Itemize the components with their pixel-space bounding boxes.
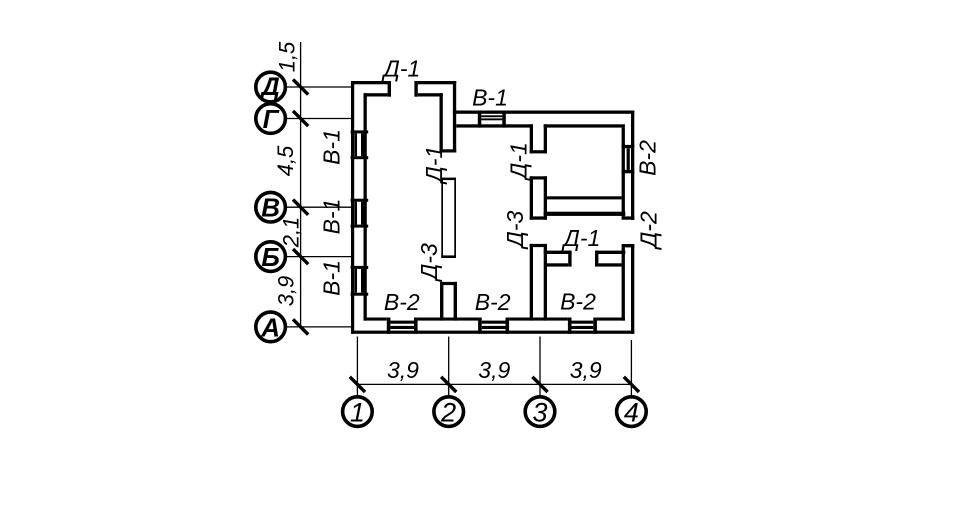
left wall inner line	[364, 93, 367, 320]
svg-text:3: 3	[532, 398, 547, 428]
window В-1 (top wall) panes	[481, 115, 502, 117]
svg-text:Д-3: Д-3	[416, 243, 442, 283]
main top wall outer line	[453, 111, 634, 114]
tick at В	[293, 200, 308, 215]
axis line Г (horizontal extension)	[286, 118, 352, 120]
window В-1 (top wall) caps	[478, 111, 482, 128]
tick at Б	[293, 249, 308, 264]
door Д-1 jamb left (room)	[568, 251, 571, 267]
window В-2 (right wall) pane	[627, 148, 630, 170]
axis extension line 2	[448, 337, 450, 397]
axis extension line 4	[630, 340, 632, 396]
svg-text:3,9: 3,9	[478, 357, 510, 383]
main top wall inner line	[456, 124, 533, 127]
wall W3 inner line	[547, 196, 622, 199]
axis bubble 4	[617, 397, 647, 428]
bottom wall outer line	[351, 331, 634, 334]
axis extension line 3	[539, 337, 541, 397]
porch top wall inner line	[364, 93, 388, 96]
svg-text:В-2: В-2	[475, 289, 511, 315]
room top wall inner line	[547, 263, 568, 266]
svg-text:А: А	[260, 312, 280, 342]
door Д-1 jamb left (porch)	[388, 81, 391, 97]
svg-text:3,9: 3,9	[570, 357, 602, 383]
svg-text:Б: Б	[261, 242, 279, 272]
door Д-1 jamb (W1 upper cap)	[440, 149, 457, 152]
svg-text:Г: Г	[263, 104, 280, 134]
svg-text:В-2: В-2	[560, 288, 596, 314]
door Д-2 jamb top	[622, 216, 635, 219]
svg-text:Д-1: Д-1	[421, 146, 447, 186]
window В-1 middle (left wall)	[351, 199, 369, 202]
door Д-3 jamb (W2, lower)	[530, 244, 547, 247]
axis extension line 1	[356, 337, 358, 397]
tick at А	[293, 319, 308, 334]
right wall inner line	[622, 128, 625, 217]
door Д-1 jamb right (room)	[595, 251, 598, 267]
door Д-1 jamb (W2 mid cap)	[530, 176, 547, 179]
tick at axis 3	[532, 377, 547, 392]
axis line Б (horizontal extension)	[286, 256, 352, 258]
partition top cap (W1)	[441, 178, 456, 181]
axis line А (horizontal extension)	[286, 326, 352, 328]
svg-text:4: 4	[624, 398, 639, 428]
axis bubble 3	[525, 397, 555, 428]
axis bubble 1	[343, 397, 373, 428]
bottom dimension line	[357, 383, 631, 385]
svg-text:В-2: В-2	[384, 289, 420, 315]
wall W1 right line upper	[453, 81, 456, 153]
axis line Д (horizontal extension)	[286, 86, 352, 88]
porch top wall outer line	[351, 81, 388, 84]
wall W2 middle lines	[530, 176, 533, 219]
axis bubble В	[256, 192, 286, 222]
wall W3 outer line	[544, 212, 626, 216]
wall W2 stub lines	[530, 124, 533, 153]
window В-2 middle (bottom wall)	[478, 318, 482, 334]
tick at Г	[293, 111, 308, 126]
door Д-1 jamb (W2 stub cap)	[530, 150, 547, 153]
svg-text:Д-1: Д-1	[561, 225, 601, 251]
door Д-1 jamb right (porch)	[414, 81, 417, 97]
right wall outer line	[631, 111, 634, 221]
svg-text:2,1: 2,1	[279, 217, 304, 249]
svg-text:В: В	[261, 193, 280, 223]
svg-text:Д: Д	[260, 73, 280, 101]
axis line В (horizontal extension)	[286, 206, 352, 208]
svg-text:2: 2	[440, 398, 456, 428]
tick at axis 4	[624, 377, 639, 392]
svg-text:4,5: 4,5	[273, 145, 298, 176]
partition lines (W1)	[441, 178, 443, 258]
svg-text:Д-3: Д-3	[502, 210, 528, 250]
window В-1 upper (left wall)	[351, 130, 369, 133]
room top wall outer line	[544, 251, 572, 254]
window В-1 lower (left wall)	[351, 266, 369, 269]
left wall outer line	[351, 81, 354, 334]
tick at Д	[293, 79, 308, 94]
door Д-2 jamb bottom	[622, 244, 635, 247]
svg-text:1: 1	[350, 398, 365, 428]
wall W2 lower lines	[530, 244, 533, 321]
bottom wall inner line	[364, 318, 387, 321]
window В-2 right (bottom wall)	[568, 318, 572, 334]
svg-text:1,5: 1,5	[275, 41, 300, 72]
svg-text:В-1: В-1	[319, 260, 345, 296]
window В-2 (right wall) caps	[622, 145, 635, 148]
door Д-3 jamb (W1 lower cap)	[440, 282, 457, 285]
svg-text:Д-1: Д-1	[381, 56, 421, 82]
tick at axis 2	[441, 377, 456, 392]
left vertical dimension line	[300, 42, 302, 327]
svg-text:В-2: В-2	[634, 140, 660, 176]
axis bubble Г	[256, 104, 286, 134]
svg-text:В-1: В-1	[319, 129, 345, 165]
svg-text:3,9: 3,9	[387, 357, 419, 383]
door Д-3 jamb (W2, upper)	[530, 216, 547, 219]
axis bubble Д	[256, 72, 286, 102]
wall W1 lower lines	[440, 282, 443, 321]
svg-text:Д-2: Д-2	[635, 211, 661, 251]
window В-2 left (bottom wall)	[387, 318, 391, 334]
partition bottom cap (W1) - door Д-3 jamb	[441, 255, 456, 258]
svg-text:В-1: В-1	[472, 84, 508, 110]
axis bubble А	[256, 312, 286, 342]
wall W1 left line upper	[440, 93, 443, 152]
axis bubble 2	[434, 397, 464, 428]
svg-text:Д-1: Д-1	[505, 142, 531, 182]
svg-text:В-1: В-1	[319, 199, 345, 235]
tick at axis 1	[350, 377, 365, 392]
svg-text:3,9: 3,9	[274, 276, 299, 307]
axis bubble Б	[256, 242, 286, 272]
